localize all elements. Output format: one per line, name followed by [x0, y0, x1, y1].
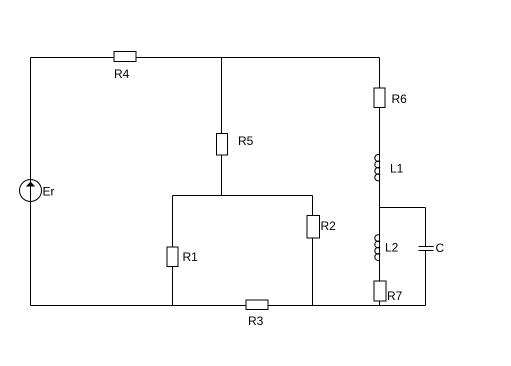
wire R1 branch vertical	[172, 196, 174, 306]
svg-text:R1: R1	[183, 250, 199, 264]
svg-text:Er: Er	[43, 185, 55, 199]
resistor R4 body	[114, 52, 136, 62]
wire left: top-left corner down to bottom-left corner	[30, 58, 32, 306]
wire capacitor branch horizontal	[380, 207, 426, 209]
svg-text:L1: L1	[390, 162, 404, 176]
resistor R1 body	[167, 247, 178, 267]
wire capacitor branch lower vertical	[425, 251, 427, 306]
svg-text:R6: R6	[392, 92, 408, 106]
resistor R3 body	[246, 300, 268, 310]
source Er arrow	[26, 182, 35, 187]
capacitor C plates	[419, 247, 434, 251]
resistor R7 body	[374, 281, 386, 301]
wire middle horizontal	[173, 195, 313, 197]
svg-text:R4: R4	[114, 67, 130, 81]
svg-text:R2: R2	[321, 219, 337, 233]
inductor L2 coils	[375, 235, 380, 261]
svg-text:R3: R3	[248, 314, 264, 328]
wire right: top-right corner down to bottom wire	[379, 58, 381, 306]
svg-text:R7: R7	[387, 289, 403, 303]
inductor L1 coils	[375, 155, 380, 181]
wire R5 branch vertical	[221, 58, 223, 196]
resistor R6 body	[374, 88, 385, 108]
svg-text:R5: R5	[238, 134, 254, 148]
wire R2 branch vertical	[312, 196, 314, 306]
wire bottom: bottom-left corner to capacitor branch corner	[31, 305, 426, 307]
svg-text:L2: L2	[385, 241, 399, 255]
source Er circle	[20, 180, 42, 202]
resistor R5 body	[217, 134, 228, 156]
wire top: left corner to right corner	[31, 57, 380, 59]
wire capacitor branch upper vertical	[425, 208, 427, 247]
svg-text:C: C	[436, 241, 445, 255]
resistor R2 body	[307, 216, 320, 239]
